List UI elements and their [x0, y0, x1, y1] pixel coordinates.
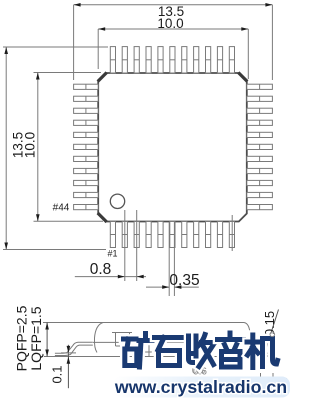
top pin 32 — [134, 47, 139, 73]
right pin 13 — [247, 96, 273, 101]
right pin 15 — [247, 120, 273, 125]
watermark character 音 — [218, 333, 244, 367]
top pin 25 — [217, 47, 222, 73]
side view: body parting line — [93, 341, 252, 343]
bottom pin 10 — [217, 222, 222, 248]
svg-text:#44: #44 — [53, 203, 70, 214]
right pin 16 — [247, 132, 273, 137]
svg-text:www.crystalradio.cn: www.crystalradio.cn — [114, 377, 287, 397]
top pin 33 — [122, 47, 127, 73]
chamfer top-right corner — [238, 73, 247, 82]
bottom pin 7 — [182, 222, 187, 248]
right pin 22 — [247, 205, 273, 210]
watermark character 机 — [247, 335, 278, 368]
left pin 34 — [74, 84, 99, 89]
left pin 39 — [74, 144, 99, 149]
dimension 10.0 vertical: dimension line — [37, 73, 39, 222]
left pin 41 — [74, 168, 99, 173]
dimension 0.8: extension line at pin2 center — [124, 210, 126, 281]
dimension 10.0 horizontal: extension line left — [97, 29, 99, 69]
left pin 43 — [74, 192, 99, 197]
center line through bottom pin 11 — [231, 215, 233, 251]
right pin 21 — [247, 192, 273, 197]
right pin 20 — [247, 180, 273, 185]
bottom pin 11 — [229, 222, 234, 248]
watermark character 矿 — [124, 334, 153, 368]
left pin 44 — [74, 205, 99, 210]
right pin 14 — [247, 108, 273, 113]
left pin 36 — [74, 108, 99, 113]
side view: body left rounded end — [94, 323, 103, 353]
dimension 13.5 vertical: dimension line — [5, 47, 7, 250]
chamfer bottom-left corner — [98, 213, 107, 222]
side view: seating plane line — [44, 356, 268, 358]
svg-text:#1: #1 — [107, 249, 117, 259]
dimension 0.6 foot length: tick lines bottom right — [260, 373, 262, 384]
dimension 10.0 vertical: extension line bottom — [34, 220, 104, 222]
svg-text:10.0: 10.0 — [22, 132, 37, 158]
left pin 42 — [74, 180, 99, 185]
dimension 13.5 vertical: extension line bottom — [3, 249, 106, 251]
svg-text:0.35: 0.35 — [169, 272, 199, 289]
watermark character 石 — [155, 338, 184, 366]
top pin 30 — [158, 47, 163, 73]
side view: body right rounded corner — [244, 323, 252, 351]
dimension 0.1 standoff: foot top tick line — [61, 352, 76, 354]
right pins (pins 12-22) — [247, 84, 273, 210]
side view: hidden detail rectangle behind watermark — [115, 333, 117, 346]
dimension 0.8: extension line at pin3 center — [136, 210, 138, 281]
dimension 13.5 horizontal: extension line left — [73, 5, 75, 80]
right pin 18 — [247, 156, 273, 161]
left pins (pins 34-44 downward) — [74, 84, 99, 210]
pin 1 indicator circle — [110, 194, 124, 208]
top pin 27 — [194, 47, 199, 73]
dimension 0.35: extension line at pin6 right edge — [173, 222, 175, 296]
right pin 17 — [247, 144, 273, 149]
side view: body top edge — [43, 322, 244, 324]
top pins (pins 34-24) — [110, 47, 234, 73]
top pin 24 — [229, 47, 234, 73]
bottom pin 6 — [170, 222, 175, 248]
bottom pin 8 — [194, 222, 199, 248]
left pin 38 — [74, 132, 99, 137]
dimension 13.5 horizontal: extension line right — [271, 5, 273, 80]
dimension 0.35: dimension line — [146, 286, 169, 288]
dimension 0.35: extension line at pin6 left edge — [168, 222, 170, 296]
dimension 0.1 standoff: extension line — [67, 345, 69, 388]
right pin 19 — [247, 168, 273, 173]
side view: left lead lower line — [55, 345, 93, 355]
side view: right lead — [252, 342, 268, 355]
left pin 35 — [74, 96, 99, 101]
package body outline (top view) — [98, 73, 247, 222]
svg-text:0.1: 0.1 — [50, 365, 65, 383]
side view: lead remnant behind watermark — [148, 344, 150, 356]
left pin 37 — [74, 120, 99, 125]
top pin 28 — [182, 47, 187, 73]
dimension 10.0 horizontal: extension line right — [247, 29, 249, 79]
top pin 29 — [170, 47, 175, 73]
dimension 0.15: leader line — [263, 310, 279, 360]
dimension 13.5 vertical: extension line top — [3, 46, 108, 48]
bottom pin 1 — [110, 222, 115, 248]
bottom pin 4 — [146, 222, 151, 248]
svg-text:LQFP=1.5: LQFP=1.5 — [28, 306, 44, 370]
right pin 12 — [247, 84, 273, 89]
svg-text:10.0: 10.0 — [157, 16, 183, 31]
chamfer top-left corner — [98, 73, 107, 82]
bottom pin 3 — [134, 222, 139, 248]
watermark character 收 — [189, 335, 215, 367]
left pin 40 — [74, 156, 99, 161]
svg-text:0.8: 0.8 — [90, 261, 112, 278]
dimension PQFP/LQFP height: dimension line — [46, 323, 48, 357]
top pin 26 — [206, 47, 211, 73]
bottom pin 5 — [158, 222, 163, 248]
top pin 31 — [146, 47, 151, 73]
small circle mark near 0.15 leader — [270, 332, 275, 337]
bottom pin 2 — [122, 222, 127, 248]
bottom pins (pins 1-11) — [110, 222, 234, 248]
top pin 34 — [110, 47, 115, 73]
side view: left lead upper line — [55, 342, 93, 353]
dimension 13.5 horizontal: dimension line — [74, 4, 273, 6]
svg-text:0.15: 0.15 — [262, 311, 277, 336]
dimension 10.0 horizontal: dimension line — [98, 28, 248, 30]
bottom pin 9 — [206, 222, 211, 248]
dimension 0.8: dimension line — [75, 276, 125, 278]
dimension 10.0 vertical: extension line top — [34, 72, 102, 74]
